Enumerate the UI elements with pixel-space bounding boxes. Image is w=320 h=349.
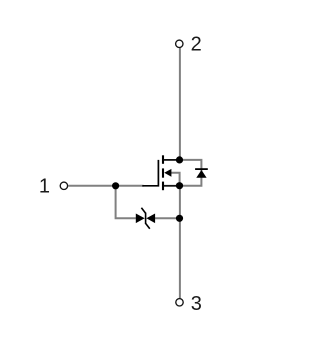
pin 3 terminal circle	[176, 299, 183, 306]
mosfet Q1 source contact bar	[162, 182, 164, 191]
body diode D1 cathode bar	[195, 168, 208, 170]
pin 2 terminal circle	[176, 40, 183, 47]
zener Z1 right triangle	[146, 214, 155, 224]
mosfet Q1 body arrow	[164, 169, 171, 177]
wire zener junction down to pin3	[179, 218, 181, 298]
mosfet Q1 drain lead	[164, 159, 178, 161]
body diode D1 triangle	[196, 170, 206, 178]
junction dot gate node	[112, 182, 119, 189]
mosfet Q1 body contact bar	[162, 168, 164, 177]
zener Z1 top tick	[141, 208, 145, 213]
wire gate junction down and right to zener anode	[116, 186, 136, 219]
svg-text:3: 3	[191, 293, 202, 315]
svg-text:2: 2	[191, 34, 202, 56]
zener Z1 center bar	[145, 213, 147, 224]
wire pin1 to gate junction	[68, 185, 143, 187]
mosfet Q1 drain contact bar	[162, 155, 164, 164]
junction dot zener node	[176, 215, 183, 222]
wire mosfet body arrow tail to source junction	[171, 173, 180, 185]
junction dot source node	[176, 182, 183, 189]
zener Z1 left triangle	[136, 214, 145, 224]
wire zener cathode to source junction	[155, 217, 180, 219]
wire source junction down to zener junction	[179, 186, 181, 219]
zener Z1 bottom tick	[146, 223, 150, 228]
pin 1 terminal circle	[60, 182, 67, 189]
wire pin2 to drain junction	[179, 48, 181, 160]
junction dot drain node	[176, 156, 183, 163]
svg-text:1: 1	[39, 175, 50, 197]
mosfet Q1 source lead	[164, 185, 178, 187]
wire drain junction to body-diode top corner	[180, 160, 202, 186]
mosfet Q1 gate electrode	[142, 160, 158, 186]
